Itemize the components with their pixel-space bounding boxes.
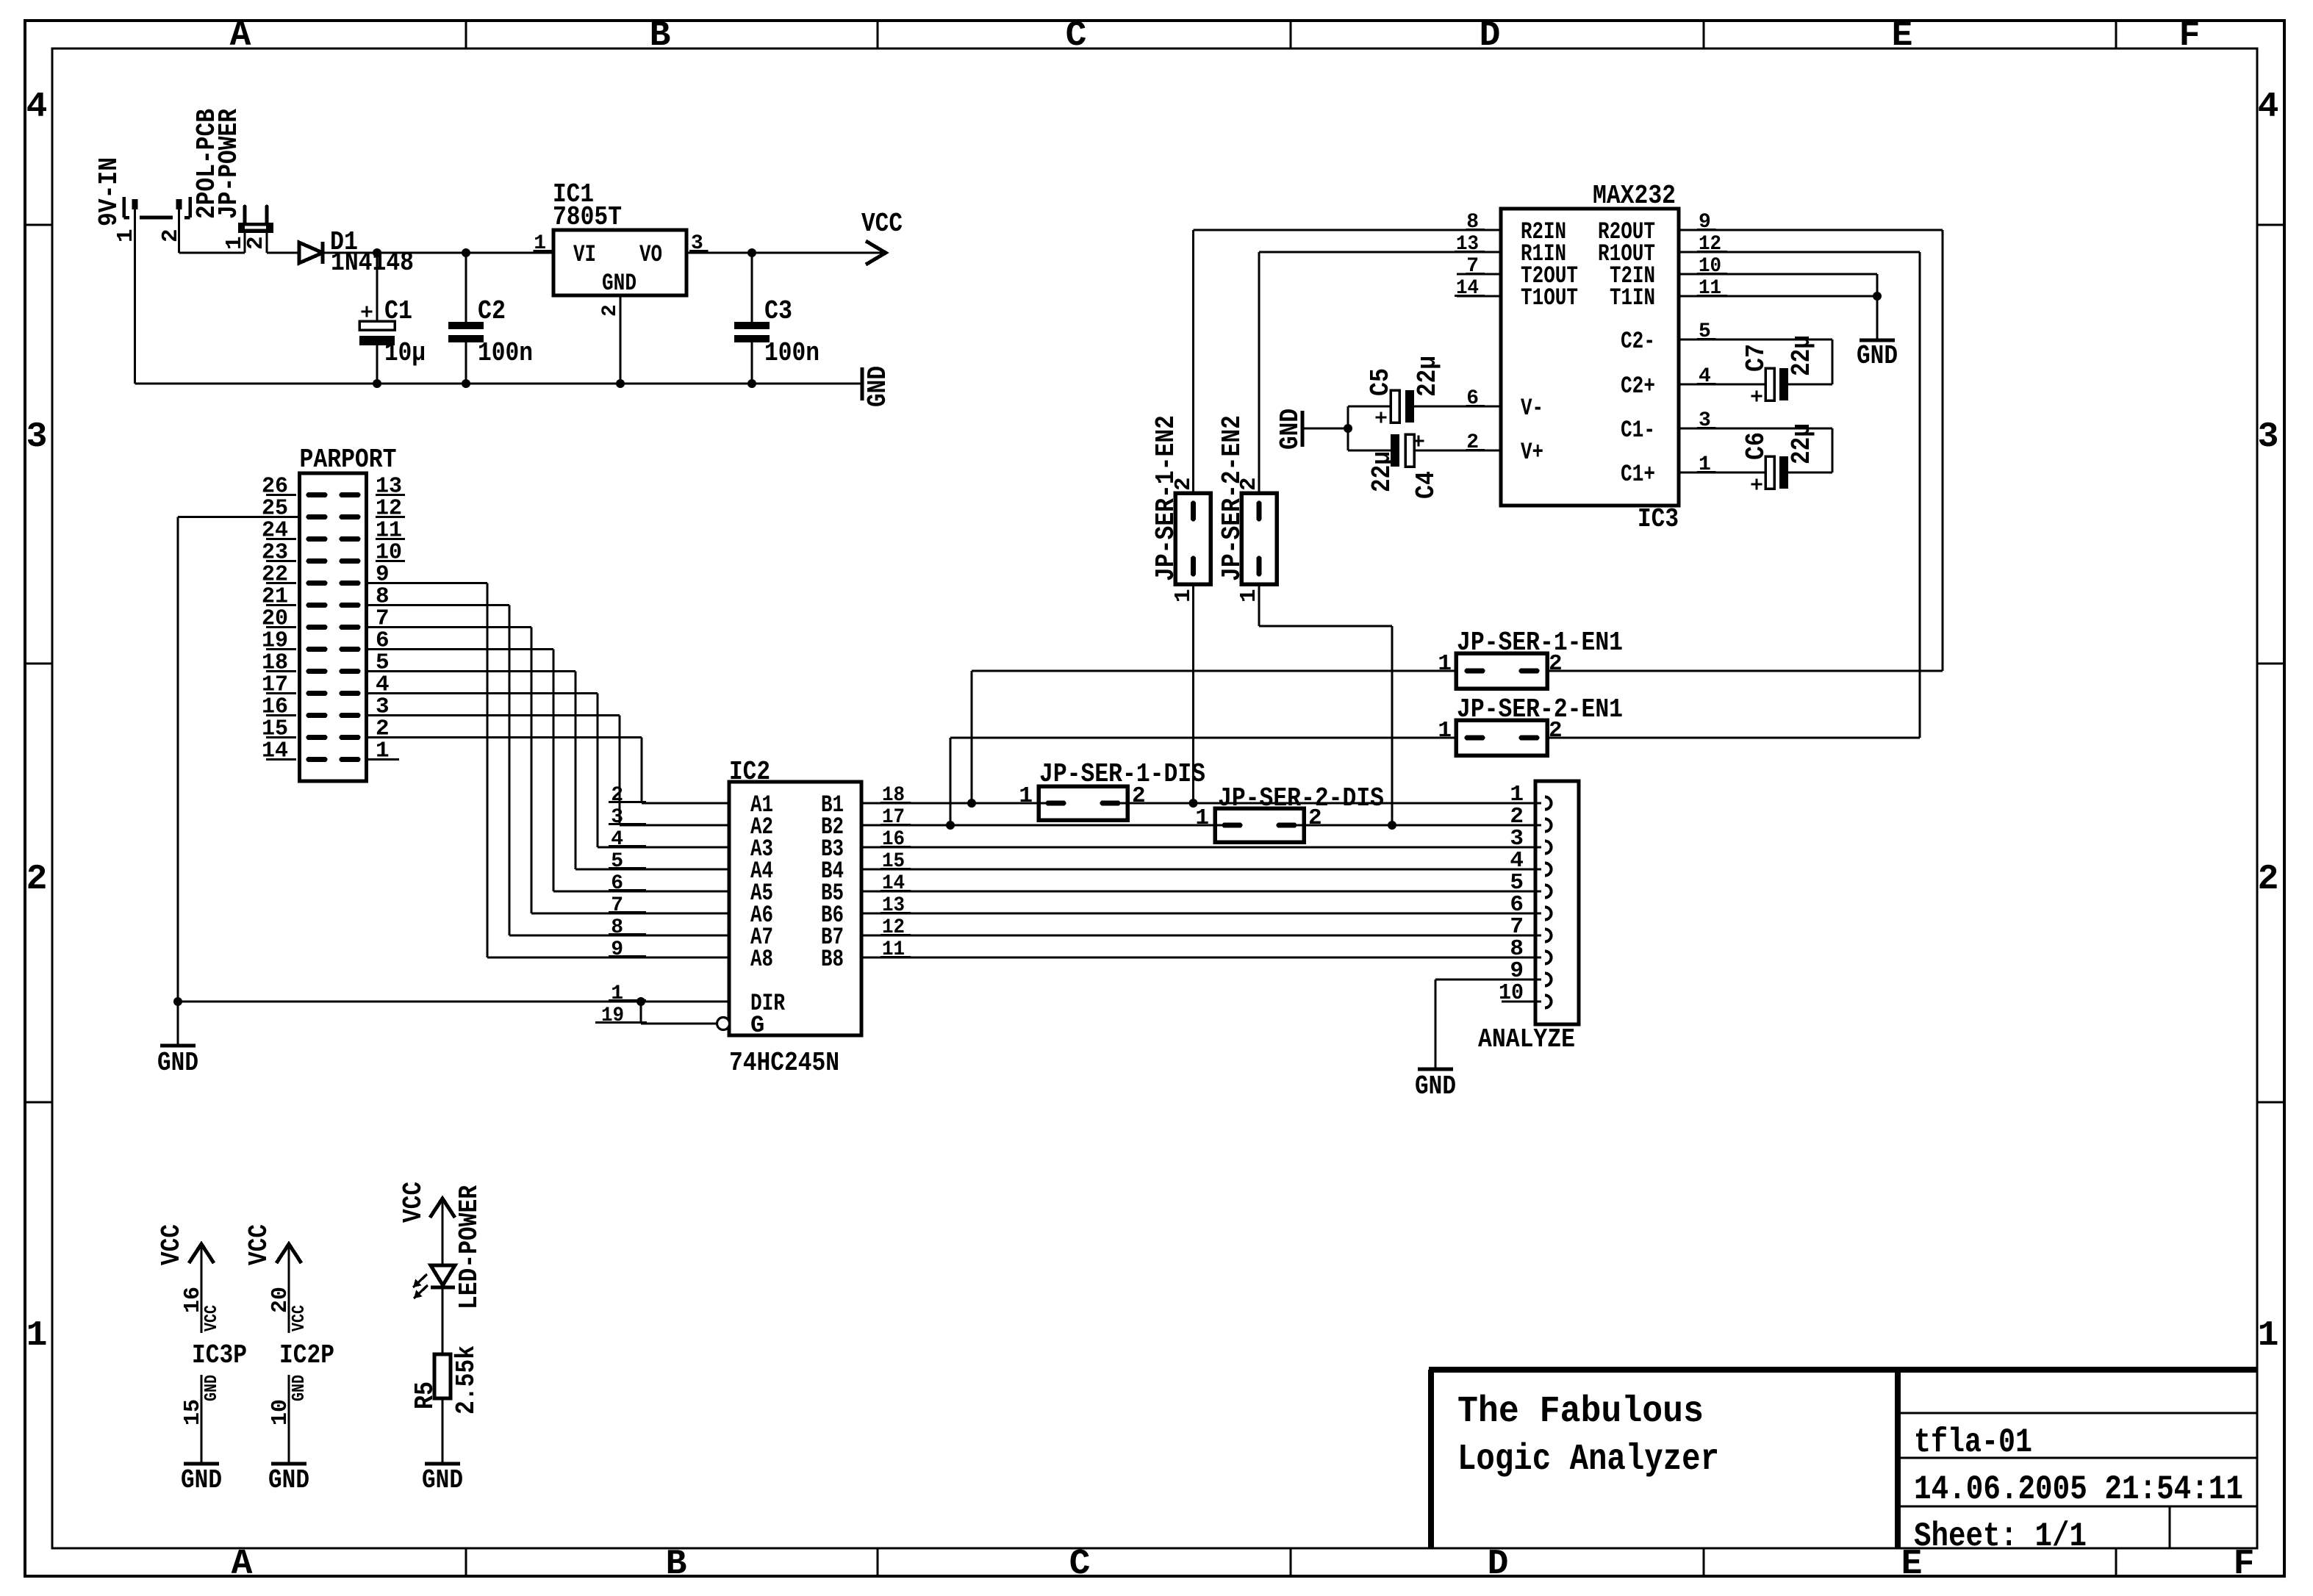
wire LED to R5	[441, 1287, 443, 1354]
IC2P GND pin	[287, 1375, 290, 1464]
wire B1 to JP-SER-1-EN1 pin1	[970, 671, 972, 803]
junction C3 top	[747, 248, 756, 257]
svg-text:Logic Analyzer: Logic Analyzer	[1457, 1439, 1719, 1481]
svg-text:2: 2	[1171, 477, 1197, 491]
capacitor C2 100n	[465, 253, 467, 322]
svg-text:7: 7	[611, 894, 623, 917]
svg-text:VCC: VCC	[157, 1224, 187, 1265]
wire PARPORT pin 7 to IC2 A6	[367, 626, 532, 628]
svg-text:9V-IN: 9V-IN	[94, 157, 124, 226]
junction B2/EN2-2	[1388, 821, 1396, 830]
svg-text:MAX232: MAX232	[1593, 181, 1676, 211]
svg-text:100n: 100n	[478, 338, 533, 368]
supply symbol VCC (LED-POWER)	[430, 1198, 455, 1218]
capacitor C5 22u	[1348, 405, 1391, 407]
svg-text:GND: GND	[181, 1465, 222, 1495]
svg-text:2: 2	[599, 304, 622, 317]
svg-text:2: 2	[26, 860, 48, 899]
PARPORT pin 13 contact	[342, 492, 358, 497]
svg-text:2: 2	[243, 236, 269, 250]
svg-text:2: 2	[1549, 718, 1563, 744]
svg-text:4: 4	[2258, 87, 2279, 127]
PARPORT pin 10 contact	[342, 558, 358, 564]
junction rail C3	[747, 379, 756, 388]
ANALYZE pin 10 contact hook	[1545, 996, 1552, 1008]
capacitor C1 10u	[376, 253, 378, 321]
svg-text:VCC: VCC	[244, 1224, 274, 1265]
svg-text:JP-SER-1-EN1: JP-SER-1-EN1	[1457, 628, 1623, 658]
PARPORT pin 11 contact	[342, 536, 358, 542]
svg-text:PARPORT: PARPORT	[300, 445, 397, 475]
PARPORT pin 25 contact	[309, 514, 325, 520]
ANALYZE pin 5 contact hook	[1545, 885, 1552, 898]
PARPORT pin 23 contact	[309, 558, 325, 564]
wire 9V-IN pin2 to JP-POWER	[179, 251, 245, 254]
svg-text:6: 6	[611, 872, 623, 895]
capacitor C4 22u	[1348, 449, 1391, 451]
voltage regulator IC1 7805T	[553, 230, 686, 295]
svg-text:JP-SER-1-EN2: JP-SER-1-EN2	[1151, 415, 1181, 581]
svg-text:A: A	[232, 1545, 253, 1584]
capacitor C6 22u	[1679, 471, 1765, 473]
svg-text:IC3: IC3	[1638, 504, 1679, 534]
wire T1IN	[1679, 295, 1877, 297]
svg-text:22µ: 22µ	[1787, 335, 1817, 376]
svg-text:3: 3	[26, 417, 48, 457]
PARPORT pin 16 contact	[309, 713, 325, 718]
PARPORT pin 19 contact	[309, 647, 325, 652]
connector 9V-IN pin 1	[132, 199, 138, 209]
svg-text:8: 8	[611, 916, 623, 939]
ground symbol GND (IC3P)	[184, 1462, 219, 1466]
IC3P GND pin	[200, 1375, 202, 1464]
svg-text:3: 3	[611, 806, 623, 829]
svg-text:ANALYZE: ANALYZE	[1478, 1024, 1575, 1054]
svg-text:JP-SER-2-DIS: JP-SER-2-DIS	[1218, 783, 1384, 813]
MAX232 T1OUT stub wire	[1457, 295, 1501, 297]
wire PARPORT pin 9 to IC2 A8	[367, 582, 488, 584]
svg-text:GND: GND	[202, 1375, 222, 1401]
svg-text:VCC: VCC	[202, 1305, 222, 1331]
wire net B2 from IC2 to ANALYZE pin 2	[861, 824, 1240, 826]
junction C2 top	[462, 248, 470, 257]
jumper JP-SER-2-EN2	[1241, 493, 1277, 584]
svg-text:GND: GND	[157, 1048, 198, 1078]
wire R2OUT to right rail	[1679, 229, 1943, 231]
wire IC1 VO to VCC	[686, 251, 884, 254]
svg-text:V+: V+	[1521, 439, 1543, 466]
wire GND to caps	[1302, 427, 1348, 429]
jumper JP-SER-2-DIS	[1215, 808, 1304, 842]
svg-text:100n: 100n	[764, 338, 820, 368]
svg-text:C1: C1	[384, 296, 412, 326]
svg-text:1: 1	[2258, 1316, 2279, 1356]
svg-text:C: C	[1066, 16, 1087, 56]
svg-text:GND: GND	[1275, 409, 1305, 450]
title block row lines	[1898, 1412, 2257, 1415]
MAX232 T2OUT stub wire	[1457, 273, 1501, 275]
wire DIR net (GND) from x242 to IC2 pin1	[178, 1000, 729, 1002]
svg-text:JP-POWER: JP-POWER	[214, 109, 244, 219]
ground symbol GND (charge pumps)	[1301, 411, 1305, 447]
PARPORT pin 18 contact	[309, 669, 325, 674]
PARPORT pin 1 stub wire	[367, 758, 400, 761]
capacitor C3 100n	[750, 253, 753, 322]
junction DIR/G nets	[636, 997, 645, 1006]
junction B2/EN1-2	[946, 821, 955, 830]
svg-text:10µ: 10µ	[384, 338, 426, 368]
svg-text:C4: C4	[1411, 471, 1441, 499]
svg-text:G: G	[750, 1012, 764, 1039]
svg-text:2: 2	[1308, 805, 1322, 831]
wire PARPORT pin 2 to IC2 A1	[367, 736, 642, 738]
svg-text:2: 2	[1236, 477, 1262, 491]
wire MAX232 R1IN to JP-SER-2-EN2	[1259, 251, 1501, 253]
connector 9V-IN pin 2	[176, 199, 182, 209]
junction C1 top	[373, 248, 381, 257]
svg-text:JP-SER-2-EN2: JP-SER-2-EN2	[1217, 415, 1247, 581]
svg-text:74HC245N: 74HC245N	[729, 1048, 839, 1078]
svg-text:IC2: IC2	[729, 757, 770, 787]
svg-text:C2+: C2+	[1621, 373, 1655, 400]
wire JP-SER-1-EN2 pin1 to B1	[1192, 584, 1194, 803]
svg-text:1: 1	[1195, 805, 1209, 831]
supply symbol VCC (IC3P)	[189, 1244, 214, 1263]
svg-text:VI: VI	[573, 241, 596, 268]
wire ANALYZE pin 9 to GND	[1435, 978, 1541, 980]
ANALYZE pin 9 contact hook	[1545, 974, 1552, 986]
wire PARPORT pin 5 to IC2 A4	[367, 670, 576, 672]
svg-text:C7: C7	[1741, 344, 1771, 372]
svg-text:The Fabulous: The Fabulous	[1457, 1391, 1704, 1433]
svg-text:GND: GND	[863, 366, 893, 407]
svg-text:2: 2	[611, 784, 623, 807]
PARPORT pin 17 contact	[309, 691, 325, 696]
wire net B8 from IC2 to ANALYZE pin 8	[861, 956, 1541, 958]
svg-text:C6: C6	[1741, 432, 1771, 460]
junction V-/V+ GND	[1344, 424, 1352, 433]
wire net B1 from IC2 to ANALYZE pin 1	[861, 802, 1064, 804]
svg-text:15: 15	[180, 1399, 206, 1426]
wire net B4 from IC2 to ANALYZE pin 4	[861, 868, 1541, 870]
svg-text:GND: GND	[1415, 1071, 1456, 1101]
PARPORT pin 5 contact	[342, 669, 358, 674]
ANALYZE pin 1 contact hook	[1545, 797, 1552, 810]
IC1 GND pin 2 wire	[619, 295, 621, 384]
svg-text:JP-SER-1-DIS: JP-SER-1-DIS	[1039, 759, 1205, 789]
ground symbol GND (analyze)	[1418, 1068, 1453, 1071]
PARPORT pin 24 contact	[309, 536, 325, 542]
ground symbol GND (T1IN/T2IN)	[1860, 339, 1895, 342]
svg-text:22µ: 22µ	[1413, 356, 1443, 397]
PARPORT pin 26 contact	[309, 492, 325, 497]
svg-text:VCC: VCC	[290, 1305, 309, 1331]
svg-text:VO: VO	[639, 241, 662, 268]
svg-text:GND: GND	[602, 270, 636, 297]
svg-text:3: 3	[2258, 417, 2279, 457]
title block border	[1429, 1367, 2257, 1373]
ground symbol GND (power section)	[861, 367, 864, 400]
jumper JP-POWER	[238, 223, 273, 233]
wire B2 to JP-SER-2-EN1 pin1	[949, 738, 951, 825]
wire net B5 from IC2 to ANALYZE pin 5	[861, 890, 1541, 892]
svg-text:GND: GND	[422, 1465, 463, 1495]
junction B1/EN2-1	[1189, 799, 1198, 808]
svg-text:9: 9	[611, 938, 623, 961]
PARPORT pin 12 contact	[342, 514, 358, 520]
LED LED-POWER	[431, 1265, 455, 1285]
PARPORT pin 7 contact	[342, 625, 358, 630]
junction rail C2	[462, 379, 470, 388]
wire C1- loop	[1679, 427, 1832, 429]
wire G net	[639, 1002, 642, 1024]
svg-text:Sheet: 1/1: Sheet: 1/1	[1914, 1517, 2087, 1556]
PARPORT pin 21 contact	[309, 603, 325, 608]
svg-text:C2: C2	[478, 296, 506, 326]
PARPORT pin 8 contact	[342, 603, 358, 608]
connector ANALYZE body	[1535, 781, 1579, 1024]
wire C2- loop	[1679, 338, 1832, 340]
svg-text:19: 19	[601, 1004, 624, 1027]
ground symbol GND (parport)	[160, 1044, 196, 1048]
IC2 G inversion bubble	[717, 1018, 730, 1030]
svg-text:5: 5	[611, 850, 623, 873]
svg-text:F: F	[2179, 16, 2201, 56]
gnd rail wire	[135, 382, 863, 384]
svg-text:A8: A8	[750, 946, 773, 973]
jumper JP-SER-1-EN1	[1456, 653, 1547, 689]
junction DIR net at GND vertical	[173, 997, 182, 1006]
svg-text:2: 2	[2258, 860, 2279, 899]
frame row ticks left/right	[25, 224, 52, 226]
PARPORT pin 4 contact	[342, 691, 358, 696]
wire PARPORT pin 3 to IC2 A2	[367, 714, 620, 716]
svg-text:E: E	[1892, 16, 1913, 56]
wire PARPORT pin 4 to IC2 A3	[367, 692, 598, 694]
wire JP-SER-2-EN2 pin1 to B2	[1258, 584, 1260, 626]
svg-text:1: 1	[1019, 783, 1033, 809]
jumper JP-SER-1-EN2	[1175, 493, 1211, 584]
svg-text:1: 1	[1438, 651, 1452, 677]
resistor R5 2.55k	[434, 1354, 451, 1398]
ANALYZE pin 8 contact hook	[1545, 952, 1552, 964]
wire MAX232 R2IN to JP-SER-1-EN2	[1194, 229, 1502, 231]
svg-text:2: 2	[1132, 783, 1146, 809]
svg-text:4: 4	[26, 87, 48, 127]
wire T-IN to GND	[1876, 296, 1878, 340]
svg-text:1: 1	[26, 1316, 48, 1356]
wire D1 to IC1 VI	[323, 251, 553, 254]
svg-text:7805T: 7805T	[553, 202, 622, 232]
wire net B7 from IC2 to ANALYZE pin 7	[861, 934, 1541, 936]
capacitor C7 22u	[1679, 383, 1765, 385]
svg-text:B8: B8	[821, 946, 844, 973]
PARPORT pin 15 contact	[309, 735, 325, 740]
wire net B3 from IC2 to ANALYZE pin 3	[861, 846, 1541, 848]
PARPORT pin 2 contact	[342, 735, 358, 740]
svg-text:10: 10	[268, 1399, 293, 1426]
svg-text:B: B	[666, 1545, 687, 1584]
wire JP-SER-2-EN1 pin2 to R1OUT net	[1547, 736, 1920, 738]
svg-text:R5: R5	[410, 1381, 440, 1409]
ground symbol GND (IC2P)	[271, 1462, 306, 1466]
wire PARPORT pin 6 to IC2 A5	[367, 648, 554, 650]
wire PARPORT pin 25 to GND net	[178, 516, 300, 518]
svg-text:JP-SER-2-EN1: JP-SER-2-EN1	[1457, 694, 1623, 725]
PARPORT pin 1 contact	[342, 757, 358, 762]
svg-text:IC3P: IC3P	[192, 1340, 247, 1370]
ANALYZE pin 7 contact hook	[1545, 930, 1552, 942]
wire R5 to GND	[441, 1398, 443, 1464]
svg-text:C5: C5	[1366, 368, 1396, 396]
jumper JP-SER-1-DIS	[1039, 786, 1127, 820]
svg-text:C1+: C1+	[1621, 461, 1655, 488]
supply symbol VCC (IC2P)	[276, 1244, 301, 1263]
wire R1OUT to right rail	[1679, 251, 1920, 253]
svg-text:B: B	[650, 16, 671, 56]
svg-text:C2-: C2-	[1621, 328, 1655, 355]
svg-text:C3: C3	[764, 296, 792, 326]
IC IC2 74HC245N body	[729, 782, 861, 1035]
ground symbol GND (LED)	[425, 1462, 460, 1466]
svg-text:D: D	[1480, 16, 1501, 56]
supply symbol VCC (power section)	[866, 241, 886, 265]
svg-text:GND: GND	[268, 1465, 309, 1495]
IC IC3 MAX232 body	[1501, 209, 1679, 506]
svg-text:T1OUT: T1OUT	[1521, 284, 1578, 312]
ANALYZE pin 2 contact hook	[1545, 819, 1552, 832]
connector PARPORT	[300, 473, 367, 781]
svg-text:V-: V-	[1521, 395, 1543, 422]
junction rail IC1 GND	[616, 379, 625, 388]
svg-text:2: 2	[158, 229, 184, 242]
svg-text:VCC: VCC	[861, 209, 903, 239]
svg-text:GND: GND	[290, 1375, 309, 1401]
svg-text:A: A	[230, 16, 251, 56]
PARPORT pin 9 contact	[342, 580, 358, 586]
frame column ticks top/bottom	[465, 21, 467, 48]
ANALYZE pin 10 underline/stub	[1502, 1000, 1541, 1002]
svg-text:C1-: C1-	[1621, 417, 1655, 444]
diode D1 1N4148	[299, 242, 323, 263]
wire JP-POWER to D1	[267, 251, 299, 254]
svg-text:D: D	[1488, 1545, 1509, 1584]
svg-text:C: C	[1069, 1545, 1091, 1584]
svg-text:T1IN: T1IN	[1610, 284, 1655, 312]
PARPORT pin 14 contact	[309, 757, 325, 762]
svg-text:22µ: 22µ	[1367, 451, 1397, 492]
PARPORT pin 3 contact	[342, 713, 358, 718]
PARPORT pin 20 contact	[309, 625, 325, 630]
svg-text:LED-POWER: LED-POWER	[454, 1185, 484, 1309]
jumper JP-SER-2-EN1	[1456, 720, 1547, 755]
svg-text:22µ: 22µ	[1787, 423, 1817, 464]
svg-text:VCC: VCC	[398, 1182, 428, 1223]
svg-text:GND: GND	[1857, 341, 1898, 371]
wire JP-SER-1-EN1 pin2 to R2OUT net	[1547, 669, 1943, 672]
LED emission arrows	[413, 1274, 427, 1287]
junction B1/EN1-1	[967, 799, 976, 808]
svg-text:2.55k: 2.55k	[451, 1345, 481, 1415]
wire net B6 from IC2 to ANALYZE pin 6	[861, 912, 1541, 914]
wire T2IN	[1679, 273, 1877, 275]
ANALYZE pin 6 contact hook	[1545, 907, 1552, 920]
svg-text:1: 1	[1438, 718, 1452, 744]
svg-text:tfla-01: tfla-01	[1914, 1423, 2032, 1462]
junction T2IN/T1IN	[1873, 292, 1882, 301]
svg-text:4: 4	[611, 828, 623, 851]
svg-text:IC2P: IC2P	[279, 1340, 334, 1370]
wire C5/C4 left link	[1346, 406, 1349, 450]
svg-text:1: 1	[113, 229, 139, 242]
svg-text:F: F	[2234, 1545, 2255, 1584]
junction rail C1	[373, 379, 381, 388]
wire PARPORT pin 8 to IC2 A7	[367, 604, 510, 606]
PARPORT pin 6 contact	[342, 647, 358, 652]
PARPORT pin 22 contact	[309, 580, 325, 586]
svg-text:14.06.2005 21:54:11: 14.06.2005 21:54:11	[1914, 1470, 2243, 1509]
ANALYZE pin 3 contact hook	[1545, 841, 1552, 854]
svg-text:2: 2	[1549, 651, 1563, 677]
ANALYZE pin 4 contact hook	[1545, 863, 1552, 876]
